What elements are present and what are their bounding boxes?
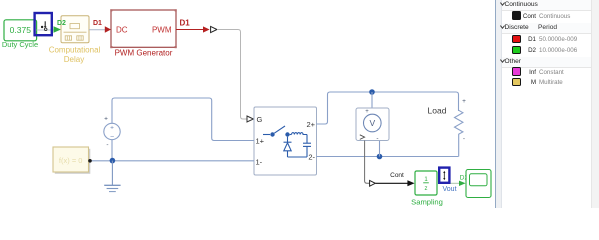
svg-text:-: -: [463, 136, 465, 143]
converter icon inductor: [292, 133, 308, 135]
svg-text:f(x) = 0: f(x) = 0: [59, 156, 83, 165]
svg-text:D2: D2: [57, 20, 66, 27]
svg-text:0.375: 0.375: [10, 25, 32, 35]
wire Cont to Sampling: [376, 172, 415, 187]
svg-text:Vout: Vout: [443, 186, 457, 193]
rate transition Vout (blue): [439, 168, 456, 193]
wire source top to 1+: [112, 98, 254, 141]
wire node to 1-: [90, 160, 255, 162]
svg-text:+: +: [110, 125, 114, 132]
signal conversion triangle: [211, 26, 217, 32]
converter icon bottom rail: [288, 156, 308, 158]
node on bottom wire: [377, 154, 383, 160]
svg-text:PWM Generator: PWM Generator: [115, 49, 173, 58]
converter icon diode: [284, 137, 292, 157]
svg-text:2-: 2-: [308, 153, 315, 162]
wire source bottom to node: [111, 140, 113, 161]
converter subsystem block: [254, 107, 317, 175]
svg-text:DC: DC: [116, 26, 128, 35]
svg-text:PWM: PWM: [152, 26, 172, 35]
converter icon switch dots: [270, 132, 274, 136]
svg-text:1-: 1-: [256, 158, 263, 167]
solver configuration f(x)=0: [53, 147, 92, 174]
converter icon capacitor: [303, 135, 311, 158]
svg-text:Sampling: Sampling: [411, 198, 443, 207]
conversion triangle on Cont wire: [370, 180, 376, 186]
legend header Other: [502, 57, 592, 68]
wire D1 Computational Delay to PWM Generator: [89, 20, 111, 33]
scope Vout: [466, 170, 491, 198]
svg-text:Duty Cycle: Duty Cycle: [2, 40, 38, 49]
svg-text:D1: D1: [93, 20, 102, 27]
legend row Inf Constant (magenta swatch): [512, 67, 521, 76]
svg-text:D1: D1: [180, 19, 191, 28]
svg-text:V: V: [369, 118, 375, 128]
legend header Continuous: [502, 0, 592, 11]
wire 2+ to load top: [317, 92, 459, 124]
subsystem Computational Delay: [49, 16, 101, 64]
svg-text:Cont: Cont: [390, 172, 404, 179]
svg-text:G: G: [257, 115, 263, 124]
svg-text:1+: 1+: [256, 137, 265, 146]
svg-text:2+: 2+: [306, 120, 315, 129]
constant block Duty Cycle: [2, 20, 38, 49]
wire D2 to scope: [451, 175, 469, 187]
svg-text:Delay: Delay: [64, 55, 84, 64]
legend row D2 (green swatch): [512, 46, 521, 55]
wire Duty Cycle to Computational Delay: [37, 26, 61, 32]
unit delay Sampling: [411, 171, 443, 207]
svg-text:+: +: [462, 98, 466, 105]
legend row Cont (black swatch): [512, 11, 521, 20]
node junction: [110, 158, 116, 164]
wire V+ stub: [371, 92, 373, 108]
node on top wire: [369, 89, 375, 95]
wire 2- to load bottom: [317, 156, 459, 158]
wire to gate G: [217, 30, 247, 120]
gate input triangle: [247, 116, 253, 122]
legend header Discrete / Period: [502, 23, 592, 34]
voltage measurement block: [356, 108, 389, 142]
wire V output down: [365, 141, 370, 184]
converter icon switch: [263, 126, 292, 135]
svg-text:+: +: [365, 109, 369, 115]
wire D1 PWM output: [176, 19, 210, 33]
resistor Load: [428, 98, 467, 157]
svg-text:z: z: [425, 186, 428, 192]
svg-text:Load: Load: [428, 106, 447, 116]
subsystem PWM Generator: [110, 9, 177, 57]
svg-text:Computational: Computational: [49, 46, 101, 55]
svg-text:-: -: [376, 135, 378, 142]
scrollbar: [591, 0, 599, 208]
svg-text:-: -: [106, 142, 108, 149]
ground: [104, 161, 120, 192]
manual switch (blue): [35, 13, 52, 35]
svg-text:+: +: [104, 116, 108, 123]
legend panel (sample time legend): [494, 0, 599, 208]
DC voltage source: [104, 116, 120, 149]
legend row D1 (red swatch): [512, 35, 521, 44]
wire V- stub: [379, 141, 381, 157]
legend row M Multirate (tan swatch): [512, 78, 521, 87]
